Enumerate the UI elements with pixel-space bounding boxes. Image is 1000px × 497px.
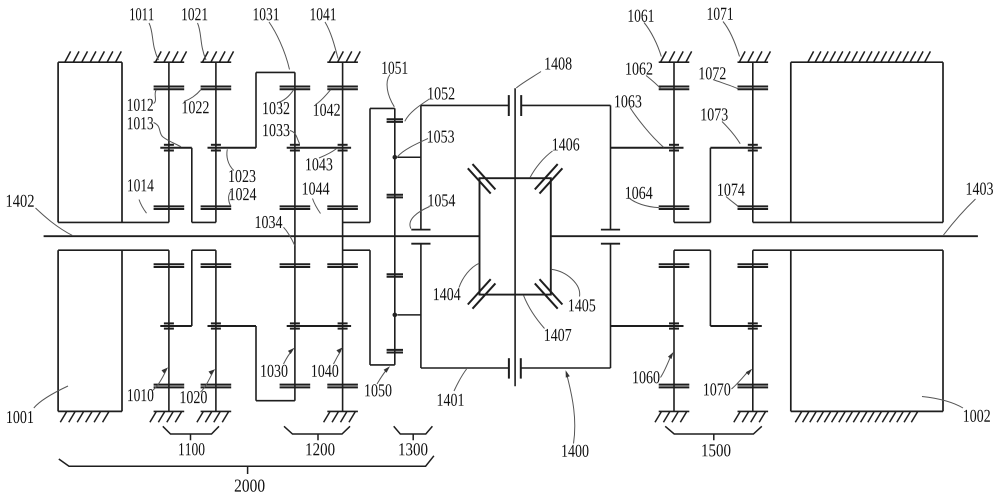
brace 1100 group — [163, 426, 219, 440]
brace 1500 group — [665, 426, 762, 440]
label 1034 leader — [256, 216, 295, 246]
sleeve bottom cap to shaft 1050 — [370, 364, 395, 366]
label 1060 leader — [633, 352, 673, 383]
shaft 1070 (vertical) — [752, 250, 754, 411]
gearbox housing 1401 bottom edge with lower coupling gap — [421, 367, 509, 369]
gear on shaft 1010 row1 — [154, 384, 185, 386]
fixed support of shaft 1060 — [659, 410, 690, 412]
bevel gear 1406 upper-right mark — [540, 168, 563, 193]
gear on shaft 1030 row2 — [280, 263, 311, 265]
gear 1072 on shaft 1071 — [738, 86, 769, 88]
hatched fixed support above housing 1002 — [808, 51, 814, 62]
gear 1052 on shaft 1051 — [387, 118, 403, 120]
bevel gear 1404 lower-left mark — [468, 279, 491, 304]
fixed support of shaft 1010 — [154, 410, 185, 412]
label 1054 leader — [410, 194, 455, 228]
lay shaft 1041 (vertical, through) — [342, 62, 344, 411]
gear 1012 on shaft 1011 — [154, 86, 185, 88]
drum wall of sleeve 1051 — [369, 108, 371, 222]
gear 1042 on shaft 1041 — [327, 86, 358, 88]
connector row lower: shaft 1060 to step — [674, 249, 710, 251]
clutch element on shaft 1070 — [748, 322, 758, 324]
motor housing 1002 (top half rectangle) — [791, 61, 943, 63]
gearbox housing 1401 top edge with coupling 1408 gap — [421, 104, 509, 106]
clutch element on shaft 1040 — [338, 322, 348, 324]
lower coupling plates — [508, 358, 510, 378]
gear 1022 on shaft 1021 — [201, 86, 232, 88]
label 1043 leader — [306, 149, 336, 171]
label 1013 leader — [128, 117, 181, 147]
bearing tee on right wall upper — [601, 229, 620, 231]
label 1406 leader — [530, 138, 579, 177]
label 1403 leader — [944, 182, 993, 235]
connector row upper: step foot to shaft 1021 — [192, 221, 216, 223]
clutch 1013 link line to step — [160, 147, 192, 149]
label 1061 leader — [629, 10, 662, 57]
label 1040 leader — [312, 347, 343, 377]
label 1405 leader — [552, 269, 595, 311]
gear 1044 on shaft 1041 — [327, 205, 358, 207]
label 1012 leader — [128, 90, 156, 111]
label 1051 leader — [382, 62, 407, 107]
lower riser wall to shaft 1030 — [255, 326, 257, 401]
pinion joint dot 1053 upper — [393, 155, 398, 160]
fixed support of shaft 1040 bottom — [327, 410, 358, 412]
gear on shaft 1070 row1 — [738, 384, 769, 386]
connector row upper: shaft 1071 to rotor of 1002 — [753, 221, 943, 223]
sleeve top cap to shaft 1051 — [370, 107, 395, 109]
label 1023 leader — [227, 149, 256, 182]
label 1052 leader — [405, 87, 455, 121]
label 1020 leader — [181, 369, 216, 403]
label 1064 leader — [626, 187, 659, 208]
connector row upper: rotor line to shaft 1011 — [58, 221, 169, 223]
label 1030 leader — [261, 348, 294, 377]
connector row lower: rotor line to shaft 1010 — [58, 249, 169, 251]
label 1053 leader — [398, 130, 454, 156]
clutch element 1073 on shaft 1071 — [748, 144, 758, 146]
center shaft 1400 (vertical through couplings) — [514, 88, 516, 386]
pinion joint dot lower — [393, 313, 398, 318]
gear 1064 on shaft 1061 — [659, 205, 690, 207]
label 1408 leader — [516, 57, 571, 88]
label 1071 leader — [708, 8, 740, 57]
label 1072 leader — [700, 67, 738, 88]
label 1050 leader — [365, 366, 391, 396]
clutch element 1043 on shaft 1041 — [338, 144, 348, 146]
bearing tee on right wall lower — [601, 243, 620, 245]
hatched fixed support above housing 1001 — [65, 51, 71, 62]
top link to shaft 1031 — [256, 71, 295, 73]
motor housing 1001 (bottom half rectangle) — [57, 250, 59, 411]
lower step wall between 1060 and 1070 — [709, 250, 711, 326]
gear on shaft 1030 row1 — [280, 384, 311, 386]
shaft 1010 (vertical) — [168, 250, 170, 411]
clutch element on shaft 1020 — [211, 322, 221, 324]
label 1002 leader — [922, 397, 990, 422]
label 1063 leader — [615, 95, 663, 147]
motor housing 1002 (bottom half rectangle) — [790, 250, 792, 411]
coupling 1408 plates — [508, 95, 510, 116]
input shaft 1021 (vertical) — [215, 62, 217, 222]
hatched fixed support below housing 1002 — [795, 412, 801, 423]
shaft 1071 (vertical) — [752, 62, 754, 222]
label 1021 leader — [182, 8, 207, 60]
lower link line gearbox right wall to clutch on 1060 — [611, 325, 684, 327]
gear on shaft 1050 upper — [387, 273, 403, 275]
label 1400 leader — [562, 370, 588, 457]
gear 1034 on shaft 1031 — [280, 205, 311, 207]
label 1014 leader — [128, 179, 154, 213]
fixed support of shaft 1071 — [738, 61, 769, 63]
label 2000 — [235, 479, 265, 491]
bevel gear 1406 upper-left mark — [468, 168, 491, 193]
label 1500 — [702, 444, 730, 456]
connector row upper: shaft 1041 to drum wall — [343, 221, 370, 223]
label 1001 leader — [7, 386, 68, 423]
fixed support of shaft 1021 — [201, 61, 232, 63]
label 1402 leader — [7, 195, 73, 236]
gear on shaft 1050 lower — [387, 349, 403, 351]
link line 1053 to gearbox wall — [397, 156, 421, 158]
lay shaft 1031 (vertical, crosses axis) — [294, 72, 296, 400]
gearbox housing 1401 left wall — [420, 105, 422, 229]
brace 1200 group — [284, 426, 350, 440]
label 1010 leader — [128, 367, 168, 401]
hatched fixed support below housing 1001 — [60, 412, 66, 423]
label 1044 leader — [303, 182, 330, 213]
label 1024 leader — [229, 188, 257, 206]
fixed support of shaft 1011 — [154, 61, 185, 63]
gear 1062 on shaft 1061 — [659, 86, 690, 88]
gear on shaft 1060 row1 — [659, 384, 690, 386]
riser wall between 1023 and shaft 1031 — [255, 72, 257, 147]
label 1401 leader — [438, 369, 467, 406]
sleeve shaft 1051/1050 (vertical) — [394, 108, 396, 365]
clutch element on shaft 1010 — [164, 322, 174, 324]
label 1074 leader — [718, 183, 745, 206]
connector row lower: shaft 1070 to rotor of 1002 — [753, 249, 943, 251]
label 1073 leader — [701, 108, 740, 144]
gear 1014 on shaft 1011 — [154, 205, 185, 207]
fixed support of shaft 1041 top — [327, 61, 358, 63]
clutch 1073 link line to step — [710, 147, 761, 149]
shaft 1060 (vertical) — [673, 250, 675, 411]
connector row lower: step foot to shaft 1020 — [192, 249, 216, 251]
clutch element 1013 on shaft 1011 — [164, 144, 174, 146]
label 1404 leader — [434, 263, 479, 300]
gear 1024 on shaft 1021 — [201, 205, 232, 207]
label 1100 — [179, 443, 204, 455]
fixed support of shaft 1070 — [738, 410, 769, 412]
gear on shaft 1020 row1 — [201, 384, 232, 386]
bearing tee on left wall upper 1054 — [411, 229, 430, 231]
motor housing 1001 (top half rectangle) — [58, 61, 122, 63]
brace 2000 group — [59, 456, 434, 474]
label 1062 leader — [626, 62, 660, 88]
connector row lower: shaft 1040 to drum wall — [343, 249, 370, 251]
brace 1300 group — [394, 426, 433, 440]
label 1022 leader — [183, 90, 209, 113]
gear on shaft 1060 row2 — [659, 263, 690, 265]
lower link line to gearbox wall — [397, 314, 421, 316]
connector row upper: shaft 1061 to step — [674, 221, 710, 223]
gear 1054 on shaft 1051 — [387, 194, 403, 196]
step wall between 1013 and row — [191, 148, 193, 223]
lower step wall 1010 side — [191, 250, 193, 326]
label 1011 leader — [130, 8, 158, 60]
label 1070 leader — [704, 369, 752, 396]
fixed support of shaft 1020 — [201, 410, 232, 412]
gear on shaft 1070 row2 — [738, 263, 769, 265]
label 1042 leader — [314, 90, 340, 116]
clutch 1023 link line to riser — [208, 147, 257, 149]
label 1200 — [306, 443, 334, 455]
step wall between 1061 and 1071 — [709, 148, 711, 223]
label 1032 leader — [263, 90, 293, 114]
clutch element 1063 on shaft 1061 — [669, 144, 679, 146]
fixed support of shaft 1061 — [659, 61, 690, 63]
shaft 1020 (vertical) — [215, 250, 217, 411]
input shaft 1011 (vertical) — [168, 62, 170, 222]
bevel gear 1405 lower-right mark — [540, 279, 563, 304]
label 1407 leader — [524, 296, 572, 341]
shaft 1061 (vertical) — [673, 62, 675, 222]
clutch element on shaft 1060 — [669, 322, 679, 324]
clutch link line 1033-1043 — [287, 147, 351, 149]
gear 1032 on shaft 1031 — [280, 86, 311, 88]
label 1300 — [399, 443, 427, 455]
label 1031 leader — [254, 8, 290, 69]
label 1033 leader — [263, 124, 299, 144]
gear on shaft 1040 row2 — [327, 263, 358, 265]
gearbox housing 1401 right wall — [610, 105, 612, 229]
gear on shaft 1040 row1 — [327, 384, 358, 386]
lower clutch link line on 1070 — [710, 325, 761, 327]
clutch element 1023 on shaft 1021 — [211, 144, 221, 146]
bearing tee on left wall lower — [411, 243, 430, 245]
clutch element 1033 on shaft 1031 — [290, 144, 300, 146]
gear on shaft 1020 row2 — [201, 263, 232, 265]
lower clutch link on shaft 1020 — [208, 325, 257, 327]
label 1041 leader — [311, 8, 338, 58]
clutch element on shaft 1030 — [290, 322, 300, 324]
bottom link to shaft 1030 — [256, 400, 295, 402]
lower clutch link on shaft 1010 — [160, 325, 192, 327]
clutch link line lower 1030-1040 — [287, 325, 351, 327]
link line gearbox right wall to clutch 1063 — [611, 147, 684, 149]
gear 1074 on shaft 1071 — [738, 205, 769, 207]
gear on shaft 1010 row2 — [154, 263, 185, 265]
differential cage 1407 rectangle — [480, 178, 551, 294]
axle / output shaft centerline 1402-1403 — [44, 235, 480, 237]
